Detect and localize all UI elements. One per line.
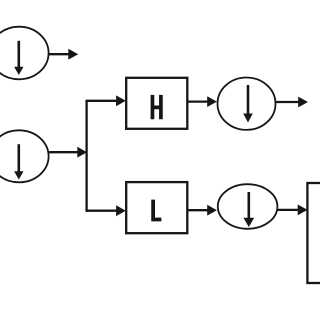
down-arrow inside D4 (243, 192, 254, 227)
wire: arrow L to D4 (187, 205, 217, 216)
wire: arrow from D4 to output block (277, 205, 307, 216)
wire: branch arrow into filter L (87, 205, 126, 216)
downsampler D4 (bottom-right ellipse) (218, 184, 278, 229)
down-arrow inside D3 (243, 85, 253, 123)
filter block H (high-pass) (126, 78, 187, 129)
wire: output arrow from D1 (48, 49, 78, 60)
filter block L (low-pass) (126, 182, 187, 233)
label H (151, 95, 163, 119)
down-arrow inside D2 (14, 144, 23, 179)
wire: vertical trunk at branch node (85, 100, 87, 212)
wire: arrow from D2 to branch node (48, 147, 87, 158)
label L (151, 200, 161, 222)
downsampler D3 (top-right ellipse) (218, 78, 276, 130)
down-arrow inside D1 (14, 41, 23, 75)
downsampler D1 (top-left ellipse) (0, 27, 49, 80)
output block (right edge, clipped) (307, 183, 320, 283)
downsampler D2 (middle-left ellipse, input) (0, 130, 49, 182)
wire: branch arrow into filter H (87, 95, 126, 106)
wire: arrow H to D3 (187, 96, 217, 107)
wire: output arrow from D3 (276, 97, 308, 108)
